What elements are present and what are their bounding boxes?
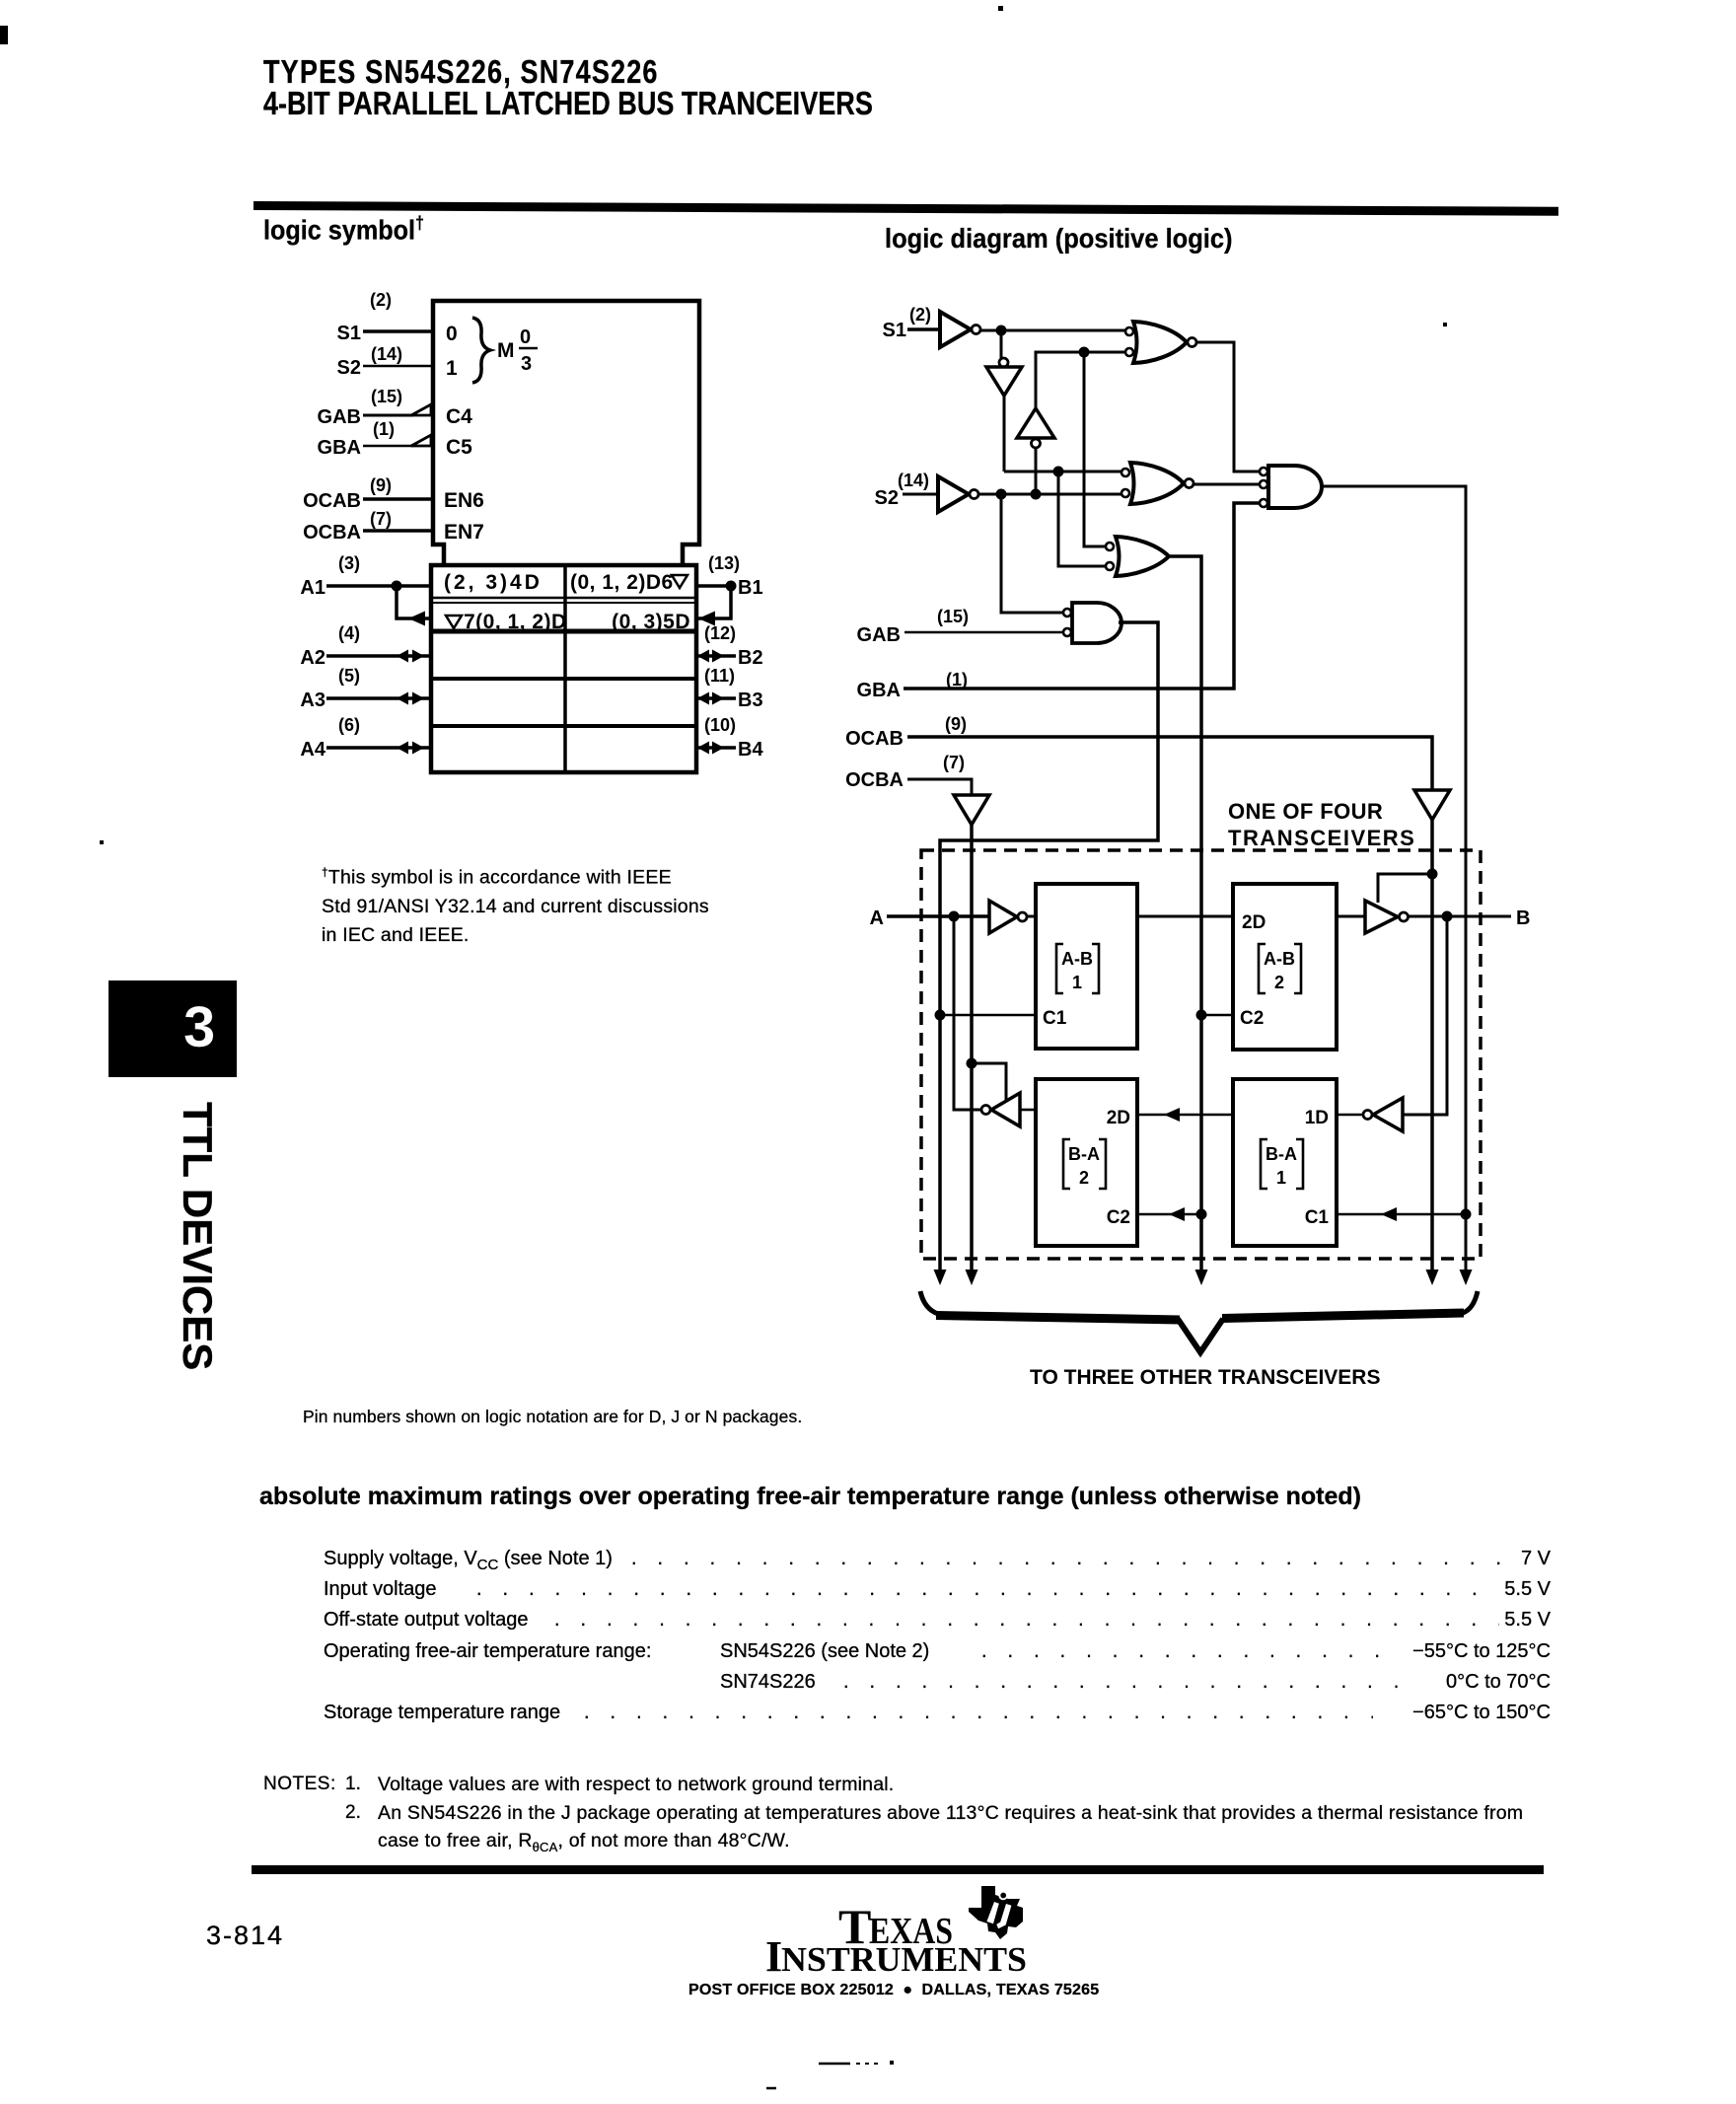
svg-text:3: 3: [521, 353, 532, 375]
svg-text:A3: A3: [300, 689, 325, 711]
svg-text:7(0, 1, 2)D: 7(0, 1, 2)D: [464, 611, 567, 633]
arrows A2: [397, 650, 408, 663]
wire GAB: [363, 414, 413, 417]
wire enable to U15: [972, 1063, 1006, 1102]
brace for M 0/3: [472, 318, 490, 383]
junction S2bar2: [1053, 467, 1064, 477]
wire U7 out: [1193, 483, 1259, 486]
bottom heavy rule: [252, 1865, 1544, 1874]
wire U11 out: [1430, 820, 1434, 1274]
arrow C1 left: [1381, 1207, 1397, 1221]
scan speck bottom center: [890, 2061, 894, 2065]
latch B-A 1 box: [1233, 1079, 1337, 1246]
junction A: [949, 911, 960, 922]
bracket label A-B 1: [1056, 944, 1099, 993]
inverter U13 (B output): [1365, 901, 1398, 933]
scan speck left margin top: [0, 26, 8, 44]
svg-text:C2: C2: [1107, 1207, 1130, 1228]
svg-text:(11): (11): [704, 666, 735, 686]
svg-text:2: 2: [1274, 973, 1284, 992]
wire A1: [326, 584, 433, 588]
svg-text:B: B: [1516, 907, 1530, 929]
wire C1 row (B-A1): [1337, 1213, 1466, 1216]
svg-text:B-A: B-A: [1266, 1144, 1297, 1164]
svg-text:(7): (7): [943, 753, 965, 772]
fraction bar: [519, 347, 538, 350]
NAND gate U9: [1063, 603, 1121, 643]
junction C2: [1196, 1010, 1207, 1021]
svg-text:(2): (2): [909, 305, 931, 325]
latch A-B 2 box: [1233, 884, 1337, 1050]
bottom arrow 1: [934, 1270, 947, 1285]
svg-text:C1: C1: [1043, 1008, 1067, 1029]
cell label 7(0,1,2)D with triangle: [446, 616, 462, 628]
wire S2 input: [903, 493, 938, 496]
scan speck near NOR1 output: [1443, 323, 1447, 326]
junction A1: [392, 581, 402, 592]
latch A-B 1 box: [1036, 884, 1137, 1049]
svg-text:OCBA: OCBA: [845, 769, 904, 791]
wire B3: [694, 696, 736, 700]
NOR gate U8 (lower): [1106, 537, 1169, 576]
bracket label B-A 1: [1261, 1139, 1303, 1189]
junction OCAB enable: [1427, 869, 1438, 880]
bottom arrow 4: [1426, 1270, 1439, 1285]
wire B1 branch down: [696, 586, 731, 618]
scan dash bottom center b: [856, 2063, 878, 2065]
svg-text:(2, 3)4D: (2, 3)4D: [444, 571, 542, 594]
svg-text:(0, 1, 2)D6: (0, 1, 2)D6: [570, 571, 674, 594]
svg-text:GAB: GAB: [857, 624, 901, 646]
NOR gate U6 (top): [1125, 322, 1196, 363]
svg-text:2D: 2D: [1107, 1108, 1130, 1128]
buffer U11 (OCAB down): [1414, 790, 1450, 820]
wire OCAB: [363, 497, 434, 501]
data block outline: [431, 565, 696, 772]
wire OCAB: [907, 737, 1432, 790]
svg-text:(12): (12): [704, 623, 736, 643]
wire OCBA: [907, 779, 972, 795]
wire U4 top: [1036, 352, 1127, 408]
svg-text:(0, 3)5D: (0, 3)5D: [612, 611, 690, 633]
svg-text:B4: B4: [738, 739, 763, 761]
svg-text:M: M: [497, 339, 515, 362]
inverter U2 (S1): [940, 312, 971, 347]
svg-text:(15): (15): [371, 387, 402, 406]
bottom arrow 5: [1460, 1270, 1473, 1285]
data block center divider: [563, 565, 567, 772]
bottom arrow 3: [1195, 1270, 1208, 1285]
inverter U5 (S2): [938, 476, 969, 512]
wire S2bar drop to NAND: [1001, 494, 1065, 613]
svg-text:GBA: GBA: [857, 680, 901, 701]
wire A2: [326, 654, 433, 658]
bracket label B-A 2: [1063, 1139, 1106, 1189]
svg-text:(3): (3): [338, 553, 360, 573]
svg-text:OCBA: OCBA: [303, 522, 361, 544]
wire U16 out to B-A1: [1337, 1114, 1363, 1117]
inverter U3 (down): [986, 367, 1022, 396]
svg-text:2: 2: [1079, 1168, 1089, 1188]
wire A-B2 to U13: [1337, 915, 1365, 918]
latch B-A 2 box: [1036, 1079, 1137, 1246]
arrows A4: [397, 742, 408, 755]
svg-text:EN6: EN6: [444, 489, 484, 512]
wire U4 bottom: [1035, 448, 1038, 494]
svg-text:(1): (1): [946, 670, 968, 689]
wire C1 row: [940, 1014, 1036, 1017]
buffer U4 (up): [1017, 408, 1054, 438]
svg-text:ONE OF FOUR: ONE OF FOUR: [1228, 799, 1383, 824]
wire GAB: [904, 631, 1065, 634]
arrows B3: [697, 692, 709, 705]
svg-text:(5): (5): [338, 666, 360, 686]
polarity wedge C5: [411, 435, 431, 446]
polarity wedge C4: [411, 404, 431, 415]
wire C2 row (B-A2): [1137, 1213, 1201, 1216]
wire B-A2 out: [1020, 1109, 1036, 1112]
svg-text:1: 1: [1276, 1168, 1286, 1188]
wire S2bar: [978, 493, 1123, 496]
svg-text:(13): (13): [708, 553, 740, 573]
junction B: [1442, 911, 1453, 922]
junction S1bar: [996, 326, 1007, 336]
svg-text:I: I: [765, 1932, 782, 1981]
wire S1bar drop: [1000, 330, 1003, 358]
wire U3 out down: [1003, 396, 1006, 472]
wire U15 out to A: [954, 916, 981, 1110]
arrow C2 left: [1169, 1207, 1185, 1221]
svg-text:B2: B2: [738, 647, 763, 669]
svg-text:(1): (1): [373, 419, 395, 439]
svg-text:1: 1: [1072, 973, 1082, 992]
svg-text:(15): (15): [937, 607, 969, 626]
wire S2: [363, 365, 434, 368]
data block sub-row line b: [433, 602, 694, 604]
svg-text:S2: S2: [875, 487, 899, 509]
dashed transceiver box: [921, 850, 1481, 1259]
scan dash bottom small: [766, 2087, 776, 2090]
wire S1: [363, 329, 434, 333]
svg-text:S1: S1: [883, 320, 906, 341]
svg-text:1: 1: [446, 357, 458, 380]
junction C2-NOR3: [1196, 1209, 1207, 1220]
arrows B4: [697, 742, 709, 755]
svg-text:B1: B1: [738, 577, 763, 599]
scan dash bottom center a: [819, 2063, 850, 2066]
wire drop to NOR3 top: [1084, 352, 1106, 546]
wire U12 out: [970, 825, 974, 1274]
junction U4 top: [1079, 347, 1090, 358]
arrows B2: [697, 650, 709, 663]
wire GBA: [904, 503, 1259, 689]
svg-text:C2: C2: [1240, 1008, 1264, 1029]
svg-text:A: A: [870, 907, 884, 929]
wire S1bar: [980, 329, 1127, 332]
svg-text:(14): (14): [898, 471, 929, 490]
junction S2bar a: [996, 489, 1007, 500]
svg-text:A-B: A-B: [1061, 949, 1093, 969]
wire A3: [326, 696, 433, 700]
scan speck top center: [998, 6, 1003, 11]
svg-text:(2): (2): [370, 290, 392, 310]
svg-text:B-A: B-A: [1068, 1144, 1100, 1164]
wire U9 out: [940, 622, 1158, 1274]
svg-text:2D: 2D: [1242, 912, 1266, 933]
inverter U3 (down) input bubble: [999, 358, 1008, 367]
wire C2 row: [1201, 1014, 1233, 1017]
svg-text:(7): (7): [370, 509, 392, 529]
wire U8 out: [1169, 556, 1201, 1274]
svg-text:(14): (14): [371, 344, 402, 364]
bracket label A-B 2: [1259, 944, 1301, 993]
svg-text:GBA: GBA: [318, 437, 361, 459]
svg-text:S2: S2: [337, 357, 361, 379]
bottom arrow 2: [966, 1270, 978, 1285]
top heavy rule: [253, 201, 1558, 216]
wire 2D row (B-A1 to B-A2): [1137, 1114, 1233, 1117]
svg-text:OCAB: OCAB: [303, 490, 361, 512]
TI logo: [759, 1879, 1055, 2002]
wire U3 out right: [1004, 471, 1123, 473]
junction C1-AND: [1461, 1209, 1472, 1220]
svg-text:(6): (6): [338, 715, 360, 735]
svg-text:GAB: GAB: [318, 406, 361, 428]
brace to three other transceivers: [920, 1291, 1478, 1352]
inverter U16 (B input): [1373, 1098, 1403, 1131]
svg-text:A2: A2: [300, 647, 325, 669]
junction B1: [726, 581, 737, 592]
wire B out: [1409, 915, 1511, 918]
svg-text:(10): (10): [704, 715, 736, 735]
wire B2: [694, 654, 736, 658]
wire drop to NOR3: [1058, 472, 1106, 566]
svg-text:NSTRUMENTS: NSTRUMENTS: [781, 1940, 1027, 1979]
svg-text:TRANSCEIVERS: TRANSCEIVERS: [1228, 826, 1415, 850]
wire U14 to latch: [1027, 915, 1036, 918]
svg-text:S1: S1: [337, 323, 361, 344]
inverter U15 (A output): [991, 1093, 1020, 1126]
wire A-B1 to A-B2: [1137, 915, 1233, 918]
svg-text:(4): (4): [338, 623, 360, 643]
data block row divider 3: [431, 724, 696, 728]
svg-text:(9): (9): [945, 714, 967, 734]
wire B1: [694, 584, 736, 588]
wire U6 out: [1196, 342, 1259, 472]
svg-text:C4: C4: [446, 405, 472, 428]
wire OCBA: [363, 529, 434, 533]
wire S1 input: [907, 327, 940, 331]
control block U1 outline: [433, 301, 699, 565]
arrow B1 in: [698, 612, 715, 626]
svg-text:B3: B3: [738, 689, 763, 711]
arrow 2D left: [1164, 1108, 1180, 1122]
arrow A1 out: [408, 612, 425, 626]
arrows A3: [397, 692, 408, 705]
svg-text:0: 0: [520, 326, 531, 348]
junction C1: [935, 1010, 946, 1021]
data block row divider 1: [431, 629, 696, 634]
svg-text:C5: C5: [446, 436, 472, 459]
buffer U14 (A input): [989, 901, 1017, 933]
junction OCBA enable: [967, 1058, 977, 1069]
data block sub-row line a: [433, 597, 694, 600]
wire B4: [694, 746, 736, 750]
wire A4: [326, 746, 433, 750]
buffer U12 (OCBA down): [954, 795, 989, 825]
svg-text:1D: 1D: [1305, 1108, 1329, 1128]
scan speck left of footnote: [100, 840, 104, 844]
svg-text:TO THREE OTHER TRANSCEIVERS: TO THREE OTHER TRANSCEIVERS: [1030, 1366, 1380, 1389]
wire A1 branch down: [397, 586, 431, 618]
junction S2bar b: [1031, 489, 1042, 500]
NOR gate U7 (middle): [1121, 463, 1193, 504]
wire A: [887, 914, 989, 918]
svg-text:(9): (9): [370, 475, 392, 495]
AND gate U10: [1260, 466, 1322, 508]
svg-text:EN7: EN7: [444, 521, 484, 544]
svg-text:OCAB: OCAB: [845, 728, 904, 750]
svg-text:A-B: A-B: [1264, 949, 1295, 969]
wire enable to U13: [1378, 874, 1432, 903]
wire GBA: [363, 445, 413, 448]
svg-text:0: 0: [446, 323, 458, 345]
wire U10 out: [1321, 486, 1466, 1274]
svg-text:C1: C1: [1305, 1207, 1330, 1228]
svg-text:A4: A4: [300, 739, 325, 761]
Texas state map emblem: [969, 1886, 1023, 1939]
wire B feedback to U16: [1403, 916, 1447, 1115]
svg-text:A1: A1: [300, 577, 325, 599]
data block row divider 2: [431, 677, 696, 681]
